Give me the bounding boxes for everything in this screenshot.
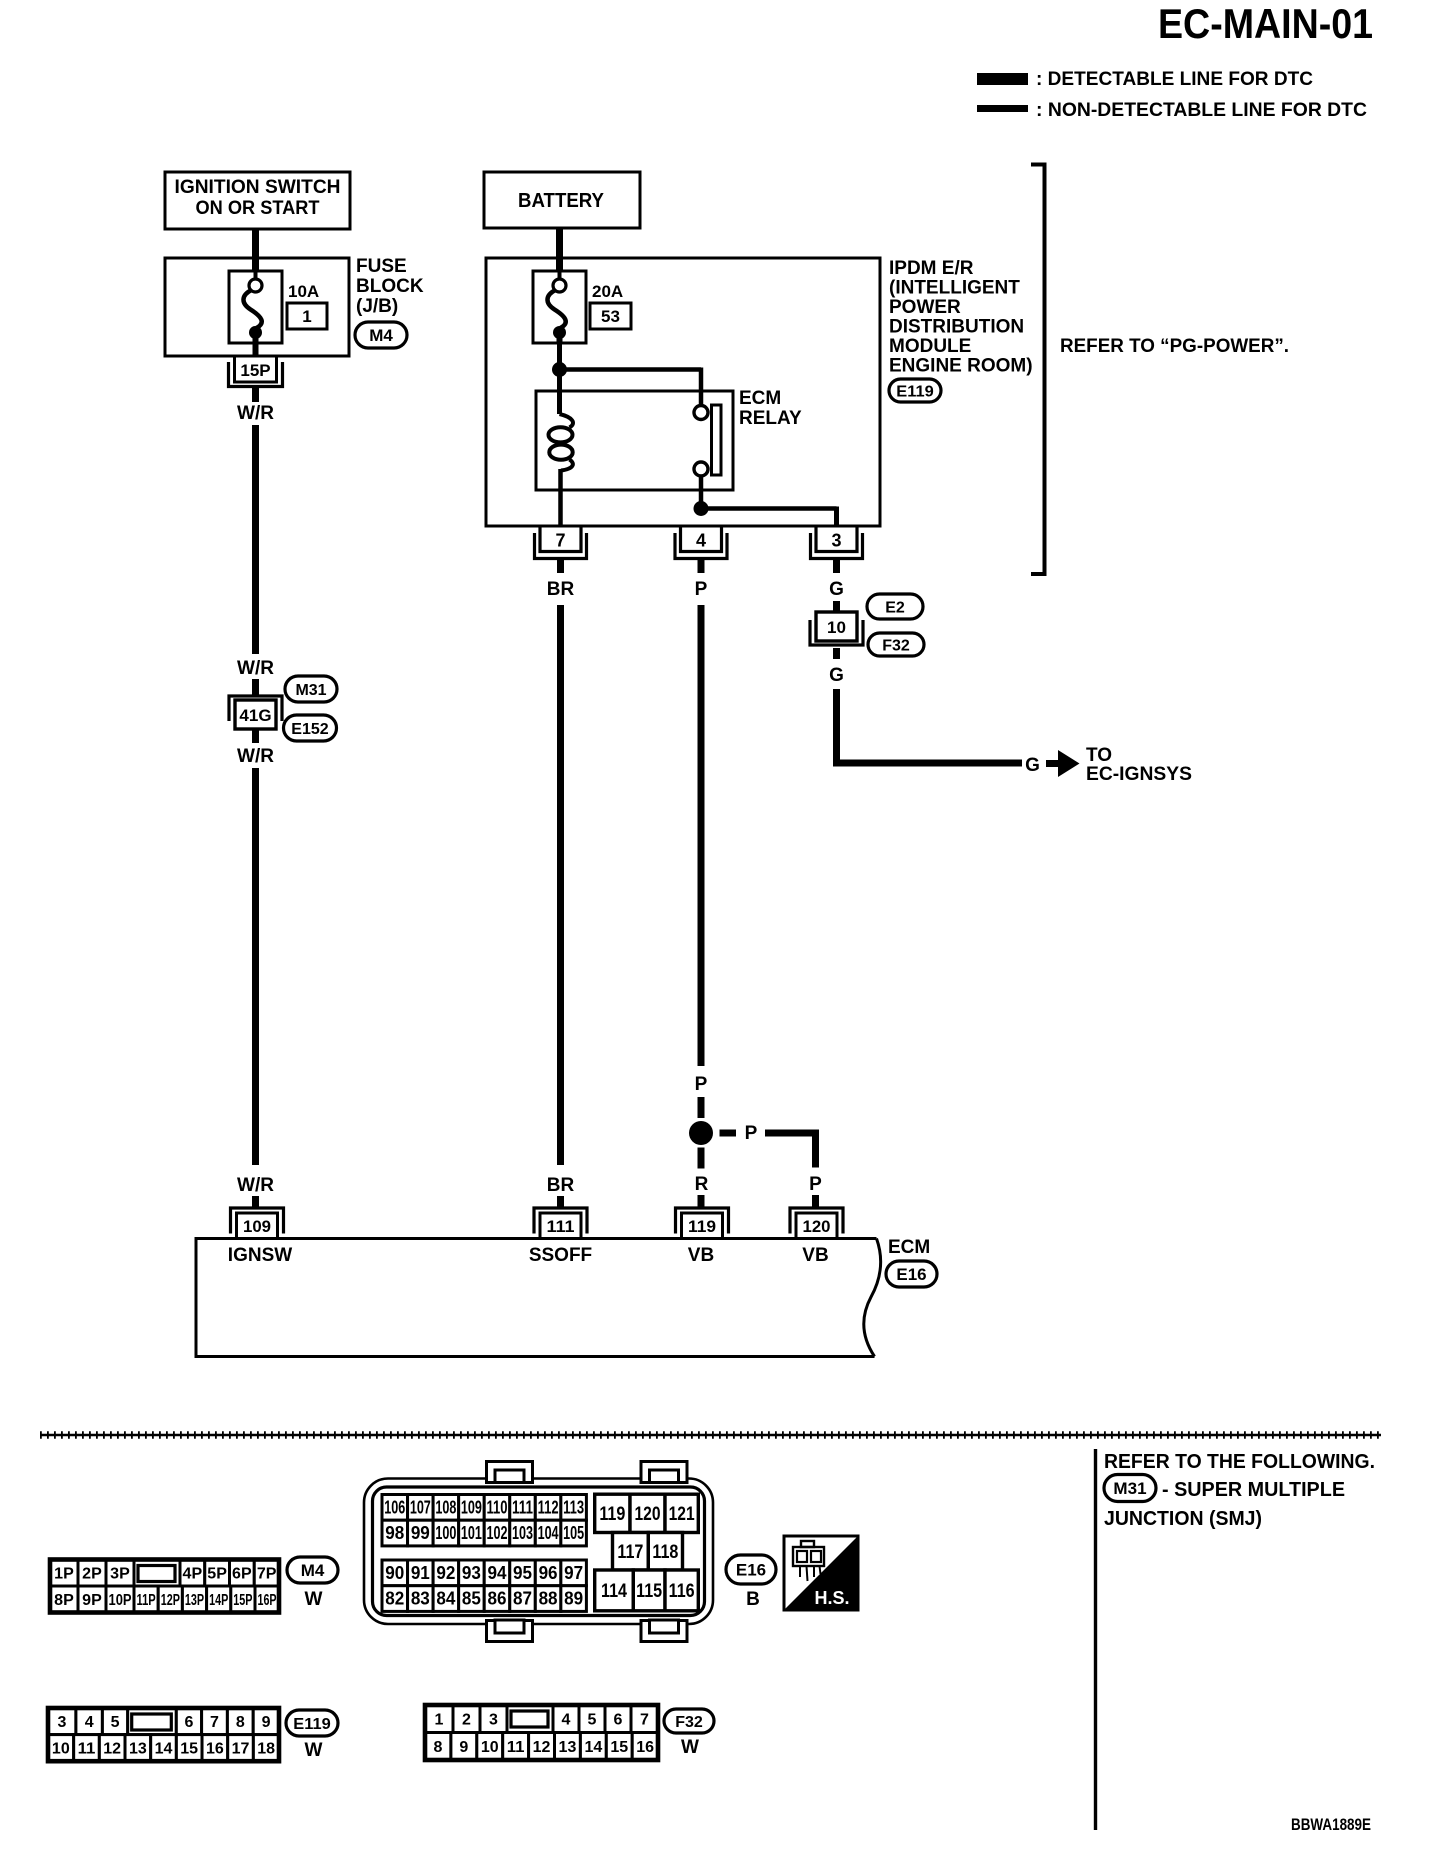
svg-text:41G: 41G xyxy=(239,706,271,725)
svg-text:P: P xyxy=(695,579,708,600)
connector oval E119 (grid) xyxy=(286,1710,338,1736)
svg-text:W/R: W/R xyxy=(237,403,274,424)
svg-text:F32: F32 xyxy=(882,637,910,654)
svg-text:105: 105 xyxy=(563,1523,584,1543)
svg-text:117: 117 xyxy=(617,1542,643,1563)
connector 15P xyxy=(253,343,259,356)
svg-text:110: 110 xyxy=(486,1497,507,1517)
svg-text:8: 8 xyxy=(434,1739,443,1756)
svg-text:E16: E16 xyxy=(896,1265,926,1284)
svg-text:W/R: W/R xyxy=(237,658,274,679)
wire stub below pin 3 xyxy=(833,560,840,573)
connector oval E2 xyxy=(867,594,923,619)
svg-text:118: 118 xyxy=(652,1542,678,1563)
SMJ connector 41G xyxy=(235,700,276,729)
wire junction to pin 3 xyxy=(701,506,837,511)
svg-text:RELAY: RELAY xyxy=(739,408,802,429)
svg-text:114: 114 xyxy=(601,1581,627,1602)
svg-text:P: P xyxy=(745,1123,758,1144)
svg-text:1P: 1P xyxy=(54,1566,74,1583)
wire G elbow to EC-IGNSYS xyxy=(837,689,1023,763)
wire ignition switch to fuse block xyxy=(252,229,259,272)
svg-text:M31: M31 xyxy=(1113,1479,1146,1498)
wire stub above connector 111 xyxy=(557,1196,564,1208)
wire junction to relay contact xyxy=(560,367,702,372)
svg-text:109: 109 xyxy=(243,1217,271,1236)
bracket refer to PG-POWER xyxy=(1031,165,1045,575)
svg-text:115: 115 xyxy=(636,1581,662,1602)
svg-text:EC-MAIN-01: EC-MAIN-01 xyxy=(1158,0,1373,47)
connector oval E16 (grid) xyxy=(726,1555,776,1584)
fuse 10A symbol xyxy=(229,271,282,343)
svg-text:E152: E152 xyxy=(291,721,328,738)
svg-text:20A: 20A xyxy=(592,282,623,301)
svg-text:E119: E119 xyxy=(896,383,934,400)
svg-text:ECM: ECM xyxy=(739,388,781,409)
connector 120 xyxy=(796,1213,837,1239)
svg-text:IGNITION SWITCH: IGNITION SWITCH xyxy=(175,177,341,198)
svg-text:- SUPER MULTIPLE: - SUPER MULTIPLE xyxy=(1162,1479,1345,1501)
connector oval M4 xyxy=(355,322,407,348)
connector pin 7 xyxy=(540,528,581,552)
svg-text:94: 94 xyxy=(487,1563,506,1583)
connector grid M4 xyxy=(50,1560,78,1587)
separator vertical line xyxy=(1094,1449,1097,1830)
svg-text:53: 53 xyxy=(601,307,620,326)
svg-text:12P: 12P xyxy=(161,1592,180,1609)
svg-text:REFER TO THE FOLLOWING.: REFER TO THE FOLLOWING. xyxy=(1104,1451,1375,1473)
svg-text:96: 96 xyxy=(539,1563,558,1583)
svg-text:10P: 10P xyxy=(109,1592,132,1609)
svg-text:P: P xyxy=(695,1074,708,1095)
svg-text:86: 86 xyxy=(487,1589,506,1609)
connector oval M31 (note) xyxy=(1104,1475,1156,1502)
svg-text:87: 87 xyxy=(513,1589,532,1609)
wire stub below 41G xyxy=(252,729,259,743)
wire P segment below junction xyxy=(698,1148,705,1169)
svg-text:119: 119 xyxy=(599,1504,625,1525)
svg-text:109: 109 xyxy=(461,1497,482,1517)
svg-text:16: 16 xyxy=(206,1741,224,1758)
svg-text:ON OR START: ON OR START xyxy=(196,198,320,219)
svg-text:4P: 4P xyxy=(183,1566,203,1583)
svg-text:3: 3 xyxy=(489,1712,498,1729)
svg-text:98: 98 xyxy=(385,1523,404,1543)
fuse block (J/B) box xyxy=(165,258,349,356)
wire stub above 41G xyxy=(252,679,259,696)
svg-text:2P: 2P xyxy=(82,1566,102,1583)
fuse number box 1 xyxy=(287,303,327,329)
svg-text:91: 91 xyxy=(411,1563,430,1583)
svg-text:W/R: W/R xyxy=(237,1175,274,1196)
svg-text:(J/B): (J/B) xyxy=(356,296,398,317)
svg-text:REFER TO “PG-POWER”.: REFER TO “PG-POWER”. xyxy=(1060,336,1289,357)
svg-text:11: 11 xyxy=(78,1741,96,1758)
svg-text:POWER: POWER xyxy=(889,297,961,318)
svg-text:3: 3 xyxy=(58,1714,67,1731)
svg-text:111: 111 xyxy=(547,1217,575,1236)
svg-text:VB: VB xyxy=(802,1245,828,1266)
svg-text:99: 99 xyxy=(411,1523,430,1543)
SMJ connector 10 xyxy=(816,612,857,641)
svg-text:10A: 10A xyxy=(288,282,319,301)
svg-text:6P: 6P xyxy=(232,1566,252,1583)
svg-text:G: G xyxy=(829,579,844,600)
svg-text:BBWA1889E: BBWA1889E xyxy=(1291,1815,1371,1834)
svg-text:ECM: ECM xyxy=(888,1237,930,1258)
svg-text:9P: 9P xyxy=(82,1592,102,1609)
wire coil to pin 7 xyxy=(558,490,563,527)
svg-text:F32: F32 xyxy=(675,1714,703,1731)
svg-text:IGNSW: IGNSW xyxy=(228,1245,292,1266)
svg-text:93: 93 xyxy=(462,1563,481,1583)
svg-text:5: 5 xyxy=(588,1712,597,1729)
svg-text:3P: 3P xyxy=(110,1566,130,1583)
svg-text:(INTELLIGENT: (INTELLIGENT xyxy=(889,278,1020,299)
svg-text:W: W xyxy=(305,1589,323,1610)
wire contact to junction xyxy=(699,476,704,508)
connector 119 xyxy=(682,1213,723,1239)
connector 109 xyxy=(237,1213,278,1239)
svg-text:92: 92 xyxy=(436,1563,455,1583)
svg-text:121: 121 xyxy=(669,1504,695,1525)
connector drawing E16 (ECM connector) xyxy=(364,1462,713,1642)
svg-text:IPDM E/R: IPDM E/R xyxy=(889,258,974,279)
svg-text:14: 14 xyxy=(584,1739,602,1756)
wire W/R vertical (upper run) xyxy=(252,425,259,654)
svg-text:BLOCK: BLOCK xyxy=(356,276,424,297)
svg-text:BR: BR xyxy=(547,1175,575,1196)
wire branch dash xyxy=(720,1130,737,1137)
svg-text:2: 2 xyxy=(462,1712,471,1729)
svg-text:15: 15 xyxy=(180,1741,198,1758)
wire fuse to coil xyxy=(557,343,562,414)
connector pin 4 xyxy=(681,528,722,552)
relay coil xyxy=(560,414,574,428)
svg-text:FUSE: FUSE xyxy=(356,256,407,277)
svg-text:4: 4 xyxy=(85,1714,94,1731)
connector oval E119 xyxy=(889,379,941,402)
svg-text:103: 103 xyxy=(512,1523,533,1543)
svg-text:16P: 16P xyxy=(258,1592,277,1609)
svg-text:84: 84 xyxy=(436,1589,455,1609)
svg-text:DISTRIBUTION: DISTRIBUTION xyxy=(889,317,1024,338)
separator dashed line xyxy=(40,1434,1381,1437)
svg-text:W: W xyxy=(305,1740,323,1761)
svg-text:101: 101 xyxy=(461,1523,482,1543)
svg-text:11: 11 xyxy=(507,1739,525,1756)
box battery xyxy=(484,172,640,228)
wire stub above connector 109 xyxy=(252,1196,259,1208)
svg-text:6: 6 xyxy=(185,1714,194,1731)
svg-text:15P: 15P xyxy=(240,361,270,380)
svg-text:7: 7 xyxy=(210,1714,219,1731)
svg-text:1: 1 xyxy=(302,307,311,326)
svg-text:14: 14 xyxy=(155,1741,173,1758)
wire W/R vertical (lower run) xyxy=(252,768,259,1165)
junction dot P xyxy=(689,1121,713,1145)
svg-text:12: 12 xyxy=(103,1741,121,1758)
svg-text:11P: 11P xyxy=(137,1592,156,1609)
svg-text:: NON-DETECTABLE LINE FOR DTC: : NON-DETECTABLE LINE FOR DTC xyxy=(1036,100,1367,121)
svg-text:R: R xyxy=(695,1174,709,1195)
svg-text:83: 83 xyxy=(411,1589,430,1609)
connector oval E16 xyxy=(886,1261,937,1287)
svg-text:112: 112 xyxy=(538,1497,559,1517)
svg-text:14P: 14P xyxy=(209,1592,228,1609)
svg-text:5P: 5P xyxy=(207,1566,227,1583)
svg-text:: DETECTABLE LINE FOR DTC: : DETECTABLE LINE FOR DTC xyxy=(1036,69,1313,90)
wire stub above connector 120 xyxy=(812,1195,819,1208)
svg-text:G: G xyxy=(1025,755,1040,776)
ECM box xyxy=(196,1239,877,1357)
svg-text:104: 104 xyxy=(538,1523,559,1543)
svg-text:13: 13 xyxy=(129,1741,147,1758)
legend detectable line sample xyxy=(977,73,1028,85)
svg-text:15P: 15P xyxy=(233,1592,252,1609)
svg-text:B: B xyxy=(746,1589,760,1610)
svg-text:BATTERY: BATTERY xyxy=(518,190,605,212)
connector oval M4 (grid) xyxy=(287,1557,338,1583)
svg-text:BR: BR xyxy=(547,579,575,600)
wire P segment xyxy=(698,1097,705,1118)
svg-text:E16: E16 xyxy=(736,1561,766,1580)
svg-text:10: 10 xyxy=(827,618,846,637)
svg-text:3: 3 xyxy=(831,531,841,551)
connector pin 3 xyxy=(816,528,857,552)
svg-text:102: 102 xyxy=(486,1523,507,1543)
svg-text:119: 119 xyxy=(688,1217,716,1236)
svg-text:M31: M31 xyxy=(295,682,326,699)
svg-text:6: 6 xyxy=(614,1712,623,1729)
svg-text:9: 9 xyxy=(459,1739,468,1756)
connector 111 xyxy=(540,1213,581,1239)
IPDM E/R box xyxy=(486,258,880,526)
svg-text:G: G xyxy=(829,665,844,686)
connector grid E119 xyxy=(48,1708,76,1735)
svg-text:90: 90 xyxy=(385,1563,404,1583)
wire BR vertical xyxy=(557,605,564,1165)
svg-text:106: 106 xyxy=(384,1497,405,1517)
legend non-detectable line sample xyxy=(977,105,1028,112)
svg-text:W/R: W/R xyxy=(237,746,274,767)
svg-text:18: 18 xyxy=(257,1741,275,1758)
svg-text:15: 15 xyxy=(610,1739,628,1756)
relay contact xyxy=(694,406,708,420)
fuse 20A symbol xyxy=(533,271,586,343)
svg-text:100: 100 xyxy=(435,1523,456,1543)
svg-text:E119: E119 xyxy=(293,1716,331,1733)
svg-text:M4: M4 xyxy=(369,326,393,345)
svg-text:107: 107 xyxy=(410,1497,431,1517)
wire stub below SMJ 10 xyxy=(833,648,840,659)
svg-text:120: 120 xyxy=(803,1217,831,1236)
svg-text:VB: VB xyxy=(688,1245,714,1266)
wire stub below pin 4 xyxy=(698,560,705,573)
svg-text:97: 97 xyxy=(564,1563,583,1583)
junction dot below fuse 20A xyxy=(552,362,567,377)
svg-text:13P: 13P xyxy=(185,1592,204,1609)
svg-text:H.S.: H.S. xyxy=(814,1588,849,1608)
svg-text:5: 5 xyxy=(111,1714,120,1731)
svg-text:4: 4 xyxy=(696,531,706,551)
svg-text:8: 8 xyxy=(236,1714,245,1731)
svg-text:85: 85 xyxy=(462,1589,481,1609)
svg-text:7: 7 xyxy=(640,1712,649,1729)
wire branch to connector 120 xyxy=(765,1133,816,1168)
arrow to EC-IGNSYS xyxy=(1046,760,1058,767)
svg-text:TO: TO xyxy=(1086,745,1112,766)
connector oval F32 xyxy=(868,633,924,656)
svg-text:116: 116 xyxy=(669,1581,695,1602)
svg-text:W: W xyxy=(681,1737,699,1758)
svg-text:88: 88 xyxy=(539,1589,558,1609)
svg-text:12: 12 xyxy=(533,1739,551,1756)
fuse number box 53 xyxy=(590,303,631,329)
H.S. logo xyxy=(784,1536,858,1610)
svg-text:95: 95 xyxy=(513,1563,532,1583)
svg-text:17: 17 xyxy=(232,1741,250,1758)
box ignition switch xyxy=(165,172,350,229)
svg-text:MODULE: MODULE xyxy=(889,336,971,357)
svg-text:82: 82 xyxy=(385,1589,404,1609)
svg-text:13: 13 xyxy=(559,1739,577,1756)
svg-text:M4: M4 xyxy=(301,1561,325,1580)
connector oval M31 xyxy=(285,676,337,702)
svg-text:JUNCTION (SMJ): JUNCTION (SMJ) xyxy=(1104,1508,1262,1530)
junction dot below relay xyxy=(694,501,709,516)
svg-text:SSOFF: SSOFF xyxy=(529,1245,592,1266)
connector oval F32 (grid) xyxy=(664,1709,714,1733)
wire battery to IPDM xyxy=(556,228,563,272)
connector grid F32 xyxy=(425,1705,453,1733)
svg-text:4: 4 xyxy=(562,1712,571,1729)
svg-text:113: 113 xyxy=(563,1497,584,1517)
wire stub below pin 7 xyxy=(557,560,564,573)
svg-text:7: 7 xyxy=(555,531,565,551)
svg-text:10: 10 xyxy=(481,1739,499,1756)
wire P vertical xyxy=(698,605,705,1066)
svg-text:E2: E2 xyxy=(885,599,905,616)
svg-text:ENGINE ROOM): ENGINE ROOM) xyxy=(889,356,1033,377)
svg-text:8P: 8P xyxy=(54,1592,74,1609)
svg-text:89: 89 xyxy=(564,1589,583,1609)
svg-text:EC-IGNSYS: EC-IGNSYS xyxy=(1086,764,1192,785)
ECM relay box xyxy=(536,391,733,490)
svg-text:16: 16 xyxy=(636,1739,654,1756)
wire stub above connector 119 xyxy=(698,1195,705,1208)
connector oval E152 xyxy=(284,715,337,741)
svg-text:9: 9 xyxy=(262,1714,271,1731)
svg-text:7P: 7P xyxy=(257,1566,277,1583)
svg-text:10: 10 xyxy=(52,1741,70,1758)
svg-text:P: P xyxy=(809,1174,822,1195)
wire G to SMJ 10 xyxy=(833,601,840,611)
svg-text:1: 1 xyxy=(435,1712,444,1729)
svg-text:120: 120 xyxy=(635,1504,661,1525)
svg-text:111: 111 xyxy=(512,1497,533,1517)
svg-text:108: 108 xyxy=(435,1497,456,1517)
